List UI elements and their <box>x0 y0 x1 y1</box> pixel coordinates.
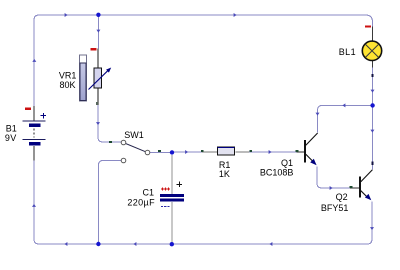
wire VR1 bottom to SW1 pole <box>98 105 121 142</box>
svg-text:SW1: SW1 <box>124 130 144 140</box>
node A junction top <box>96 13 100 17</box>
switch SW1 <box>109 140 161 163</box>
wire R1 to Q1 base <box>249 151 297 153</box>
svg-text:9V: 9V <box>5 133 17 143</box>
potentiometer VR1 <box>79 48 111 105</box>
wire Q1 collector to node C <box>318 105 373 132</box>
lead R1 left <box>202 151 217 153</box>
battery B1 <box>23 108 47 146</box>
node C junction <box>370 103 374 107</box>
svg-text:BL1: BL1 <box>339 47 356 57</box>
lead bulb top <box>372 27 374 42</box>
lead battery top <box>33 106 35 121</box>
current arrow down on Q2 emitter wire <box>370 227 374 230</box>
node E junction bottom mid <box>170 242 174 246</box>
svg-text:220µF: 220µF <box>127 197 155 207</box>
node B junction <box>170 150 174 154</box>
current arrow right on top rail x66 <box>65 13 68 17</box>
current arrow left on node C horizontal wire <box>342 103 345 107</box>
current arrow left on bottom rail x66 <box>64 242 67 246</box>
wire node B to R1 <box>172 151 202 153</box>
wire bottom rail from battery- to Q2 emitter <box>34 160 372 244</box>
resistor R1 <box>201 147 252 155</box>
lead bulb bottom <box>372 61 374 68</box>
lead Q1 base <box>297 151 305 153</box>
current arrow right before R1 <box>185 150 188 154</box>
lead R1 right <box>236 151 250 153</box>
wire SW1 lower throw to 0V rail <box>98 161 121 243</box>
transistor Q1 <box>296 133 318 165</box>
current arrow up on left wire <box>32 59 36 62</box>
node D junction bottom left <box>96 242 100 246</box>
current arrow right on Q2 base wire <box>330 186 333 190</box>
svg-text:BFY51: BFY51 <box>321 203 349 213</box>
current arrow right on top rail x235 <box>234 13 237 17</box>
current arrow right after R1 <box>269 150 272 154</box>
svg-text:Q2: Q2 <box>336 192 348 202</box>
svg-text:80K: 80K <box>59 80 75 90</box>
body line VR1 <box>97 49 99 106</box>
svg-text:1K: 1K <box>219 169 230 179</box>
wire bulb bottom to node C <box>372 68 374 105</box>
current arrow down on bulb bottom wire <box>371 90 375 93</box>
current arrow down on SW1 wire <box>96 122 100 125</box>
bulb BL1 <box>362 25 381 77</box>
wire SW1 common to node B <box>150 151 172 153</box>
current arrow down on Q2 collector wire <box>370 130 374 133</box>
current arrow up on left wire lower <box>32 204 36 207</box>
wire Q2 collector to node C <box>371 106 373 170</box>
svg-text:Q1: Q1 <box>281 158 293 168</box>
svg-text:BC108B: BC108B <box>260 167 294 177</box>
current arrow left on bottom rail x135 <box>133 242 136 246</box>
lead C1 top <box>171 155 173 195</box>
lead Q2 base <box>350 187 359 189</box>
svg-text:C1: C1 <box>143 188 155 198</box>
capacitor C1 <box>160 182 184 208</box>
current arrow left on bottom rail x271 <box>269 242 272 246</box>
wire junction A to VR1 top <box>97 16 99 49</box>
wire Q1 emitter to Q2 base <box>317 167 350 189</box>
current arrow down on VR1 top wire <box>96 30 100 33</box>
lead battery bottom <box>33 146 35 161</box>
current arrow down on Q1 collector wire <box>316 113 320 116</box>
wire top rail from battery+ to bulb <box>34 15 373 108</box>
transistor Q2 <box>350 162 374 201</box>
lead C1 bottom <box>171 202 173 243</box>
